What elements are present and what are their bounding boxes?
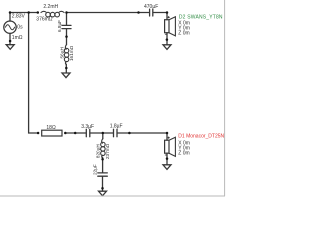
ground under top shunt bbox=[62, 73, 70, 78]
wire generator bottom lead to ground bbox=[9, 33, 11, 44]
label plus tweeter bbox=[168, 137, 170, 139]
svg-text:Z 0m: Z 0m bbox=[178, 151, 189, 157]
ground under woofer bbox=[163, 45, 171, 50]
svg-text:D1 Monacor_DT25N: D1 Monacor_DT25N bbox=[178, 134, 224, 140]
border bottom edge bbox=[0, 195, 225, 197]
junction dot inductor L1 right pin / shunt node bbox=[65, 11, 68, 14]
svg-text:2.2mH: 2.2mH bbox=[43, 4, 58, 10]
junction dot cap 3.3uF left pin bbox=[74, 132, 77, 135]
junction dot cap 1.8uF right pin bbox=[128, 132, 131, 135]
svg-text:Z 0m: Z 0m bbox=[178, 30, 189, 36]
speaker D2 woofer symbol bbox=[165, 20, 169, 33]
junction dot inductor L1 left pin bbox=[37, 11, 40, 14]
junction dot shunt node bottom bbox=[102, 132, 105, 135]
capacitor C 6.8uF bbox=[62, 24, 71, 26]
wire bottom branch cap 3.3uF to cap 1.8uF bbox=[90, 132, 113, 134]
wire top shunt: inductor 56uH to ground bbox=[65, 64, 67, 73]
junction dot under 820uH bbox=[101, 158, 104, 161]
svg-text:470µF: 470µF bbox=[144, 4, 158, 10]
label minus woofer bbox=[165, 33, 167, 35]
border right edge bbox=[224, 0, 226, 196]
svg-text:18Ω: 18Ω bbox=[46, 125, 56, 131]
inductor L 2.2mH bbox=[41, 11, 46, 12]
svg-text:237mΩ: 237mΩ bbox=[105, 143, 110, 159]
junction dot woofer bottom bbox=[166, 38, 169, 41]
wire bottom shunt: junction down to inductor 820uH bbox=[102, 133, 104, 139]
junction dot resistor left pin bbox=[37, 132, 40, 135]
wire top main from generator to inductor bbox=[10, 12, 38, 14]
wire generator top lead bbox=[9, 13, 11, 22]
inductor L 820uH bbox=[102, 139, 103, 144]
capacitor C 3.3uF bbox=[85, 129, 87, 136]
label plus woofer bbox=[168, 16, 170, 18]
wire tweeter bottom lead to ground bbox=[166, 153, 168, 164]
svg-text:376mΩ: 376mΩ bbox=[36, 16, 53, 22]
svg-text:6.8µF: 6.8µF bbox=[57, 20, 62, 32]
wire top main from cap 470uF to corner then down to woofer bbox=[153, 13, 167, 20]
junction dot tweeter corner bbox=[166, 132, 169, 135]
svg-text:0s: 0s bbox=[17, 24, 23, 30]
svg-text:1.8µF: 1.8µF bbox=[110, 124, 123, 130]
ground under bottom shunt bbox=[99, 191, 107, 196]
svg-text:820µH: 820µH bbox=[96, 144, 101, 158]
junction dot tweeter bottom bbox=[166, 157, 169, 160]
wire bottom shunt: cap 22uF to ground bbox=[102, 177, 104, 191]
capacitor C 470uF bbox=[149, 9, 151, 16]
junction dot cap 470uF left pin bbox=[137, 11, 140, 14]
junction dot between cap 6.8uF and 56uH bbox=[65, 35, 68, 38]
capacitor C 22uF bbox=[98, 172, 108, 174]
resistor R 18ohm bbox=[42, 130, 62, 136]
svg-text:1mΩ: 1mΩ bbox=[12, 35, 23, 41]
wire bottom branch cap 1.8uF to corner then down to tweeter bbox=[117, 133, 167, 140]
wire bottom branch resistor to cap 3.3uF bbox=[65, 132, 86, 134]
junction dot woofer corner bbox=[166, 11, 169, 14]
wire woofer bottom lead to ground bbox=[166, 33, 168, 45]
wire top shunt: junction to capacitor 6.8uF bbox=[66, 13, 68, 26]
ground under tweeter bbox=[163, 165, 171, 170]
wire top shunt: capacitor 6.8uF to inductor 56uH bbox=[66, 29, 68, 45]
capacitor C 1.8uF bbox=[113, 129, 115, 136]
generator V 2.83V bbox=[4, 21, 16, 33]
ground under generator bbox=[6, 45, 14, 50]
wire top main from inductor junction to cap 470uF bbox=[67, 12, 150, 14]
junction dot under 22uF bbox=[101, 187, 104, 190]
junction dot generator bottom pin bbox=[9, 40, 12, 43]
svg-text:2.83V: 2.83V bbox=[12, 14, 26, 20]
junction dot resistor right pin bbox=[64, 132, 67, 135]
svg-text:3.3µF: 3.3µF bbox=[81, 124, 94, 130]
junction dot left net bbox=[27, 11, 30, 14]
svg-text:22µF: 22µF bbox=[93, 164, 98, 175]
inductor L 56uH bbox=[65, 45, 66, 50]
speaker D1 tweeter symbol bbox=[165, 140, 169, 153]
svg-text:161mΩ: 161mΩ bbox=[69, 45, 74, 61]
wire left vertical net down to tweeter branch bbox=[29, 13, 38, 134]
label minus tweeter bbox=[165, 154, 167, 156]
junction dot generator top bbox=[9, 11, 12, 14]
junction dot under 56uH bbox=[65, 67, 68, 70]
wire bottom shunt: inductor 820uH to cap 22uF bbox=[102, 157, 104, 172]
svg-text:56µH: 56µH bbox=[60, 47, 65, 58]
